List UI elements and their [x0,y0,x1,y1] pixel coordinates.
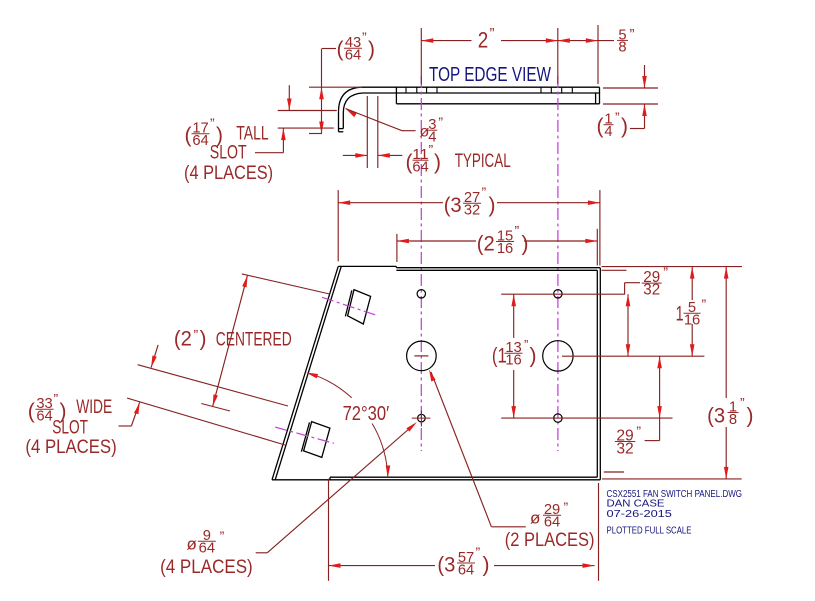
svg-text:(2 PLACES): (2 PLACES) [505,530,595,551]
svg-text:64: 64 [412,158,428,175]
hole C1 (small, bottom left) [418,414,426,422]
slot tick marks on flange (edge view) [406,87,572,93]
1 5/16 dimension [691,267,693,300]
centerline left hole column [420,76,422,451]
svg-text:PLOTTED FULL SCALE: PLOTTED FULL SCALE [607,526,692,537]
2 inch centered extension top [242,274,330,294]
(1/4) thickness dimension [603,87,658,89]
svg-text:”: ” [362,29,367,45]
svg-text:”: ” [630,26,635,43]
33/64 wide slot arrows [151,345,158,368]
svg-text:(3: (3 [437,554,455,577]
center mark large left hole [414,355,428,357]
svg-text:16: 16 [497,240,513,257]
svg-text:WIDE: WIDE [76,397,112,418]
centerline right hole column [557,76,559,451]
2 inch dimension [420,28,422,84]
svg-text:”: ” [615,109,620,125]
panel bottom inner extension [604,471,624,473]
(11/64) typical dimension [366,96,368,168]
svg-text:): ) [530,344,537,367]
hole A2 (small, top right) [554,290,562,298]
top row extension line [501,293,625,295]
(3 1/8) dimension [725,267,727,398]
svg-text:”: ” [482,184,487,200]
(17/64) tall slot dimension [278,110,337,112]
svg-text:”: ” [515,222,520,238]
bottom mounting slot [301,422,330,458]
svg-text:): ) [200,327,207,350]
29/32 upper dimension [627,294,629,356]
diameter 9/64 leader [256,552,268,554]
svg-text:64: 64 [36,407,52,424]
svg-text:ø: ø [187,535,197,554]
svg-text:): ) [489,194,496,217]
(3 27/32) dimension [337,190,339,261]
svg-text:(4 PLACES): (4 PLACES) [25,437,116,458]
svg-text:”: ” [54,391,59,407]
svg-text:07-26-2015: 07-26-2015 [607,509,673,520]
svg-text:”: ” [524,337,528,352]
29/32 lower dimension [659,356,661,418]
svg-text:(: ( [597,115,604,138]
(2 15/16) dimension [396,234,398,262]
mid row extension line [562,355,704,357]
svg-text:(4 PLACES): (4 PLACES) [184,163,273,184]
svg-text:”: ” [740,395,745,411]
svg-text:TALL: TALL [236,124,268,145]
panel bottom extension line [602,478,742,480]
panel top inner extension [602,269,627,271]
svg-text:): ) [434,151,441,174]
72 degree angle arrows [306,373,318,379]
svg-text:64: 64 [458,561,474,578]
(43/64) dimension leader [322,48,336,50]
svg-text:TOP EDGE VIEW: TOP EDGE VIEW [429,64,551,86]
svg-text:32: 32 [643,282,660,299]
center mark bottom left hole [412,417,431,419]
hole B2 (large, right) [543,341,573,371]
2 inch centered extension bottom [201,404,230,412]
top mounting slot [345,290,370,324]
svg-text:32: 32 [464,201,480,218]
2 inch centered dimension line [213,275,248,406]
svg-text:ø: ø [530,509,540,528]
svg-text:16: 16 [505,351,521,368]
hole C2 (small, bottom right) [554,414,562,422]
svg-text:): ) [522,232,529,255]
svg-text:): ) [483,554,490,577]
svg-text:64: 64 [192,132,208,149]
svg-text:”: ” [564,499,569,515]
svg-text:SLOT: SLOT [52,417,88,438]
svg-text:”: ” [220,528,225,544]
svg-text:(2: (2 [477,232,495,255]
svg-text:”: ” [702,296,707,312]
svg-text:”: ” [210,115,215,131]
svg-text:64: 64 [544,513,560,530]
svg-text:(3: (3 [444,194,462,217]
5/8 inch dimension [558,40,614,42]
svg-text:): ) [621,115,628,138]
svg-text:”: ” [663,264,668,280]
svg-text:2: 2 [478,27,489,52]
(1 13/16) dimension [513,294,515,338]
bent flange profile outline (top edge view) [339,87,600,132]
svg-text:”: ” [490,25,495,42]
svg-text:SLOT: SLOT [210,143,247,164]
bottom row extension line [501,417,672,419]
svg-text:”: ” [476,544,481,560]
svg-text:(: ( [185,124,192,147]
svg-text:(4 PLACES): (4 PLACES) [160,557,253,578]
svg-text:DAN CASE: DAN CASE [607,499,665,510]
hole A1 (small, top left) [417,290,425,298]
svg-text:64: 64 [199,539,215,556]
svg-text:(2: (2 [174,327,192,350]
panel outline [272,266,600,479]
svg-text:): ) [368,38,375,61]
svg-text:”: ” [636,423,641,439]
panel top extension line [602,266,743,268]
svg-text:”: ” [194,327,199,343]
33/64 wide slot extension lines [138,365,288,406]
hole B1 (large, left) [407,341,437,371]
svg-text:72°30′: 72°30′ [343,403,390,425]
diameter 29/64 leader [491,526,525,528]
slot centerline bottom [275,427,334,443]
svg-text:TYPICAL: TYPICAL [455,151,511,172]
svg-text:1: 1 [676,303,684,326]
svg-text:): ) [747,405,754,428]
slot centerline top [322,297,375,315]
svg-text:4: 4 [604,123,612,140]
svg-text:”: ” [429,142,434,158]
svg-text:CENTERED: CENTERED [216,329,292,350]
72 degree angle arc [309,373,388,477]
svg-text:64: 64 [345,46,361,63]
svg-text:32: 32 [616,440,633,457]
svg-text:”: ” [438,114,443,130]
svg-text:8: 8 [729,411,737,428]
(3 57/64) dimension [328,479,330,581]
svg-text:(: ( [337,38,344,61]
svg-text:8: 8 [618,39,626,56]
svg-text:(: ( [28,400,35,423]
svg-text:(3: (3 [707,405,725,428]
diameter 3/4 leader [346,109,357,118]
svg-text:16: 16 [684,311,700,328]
